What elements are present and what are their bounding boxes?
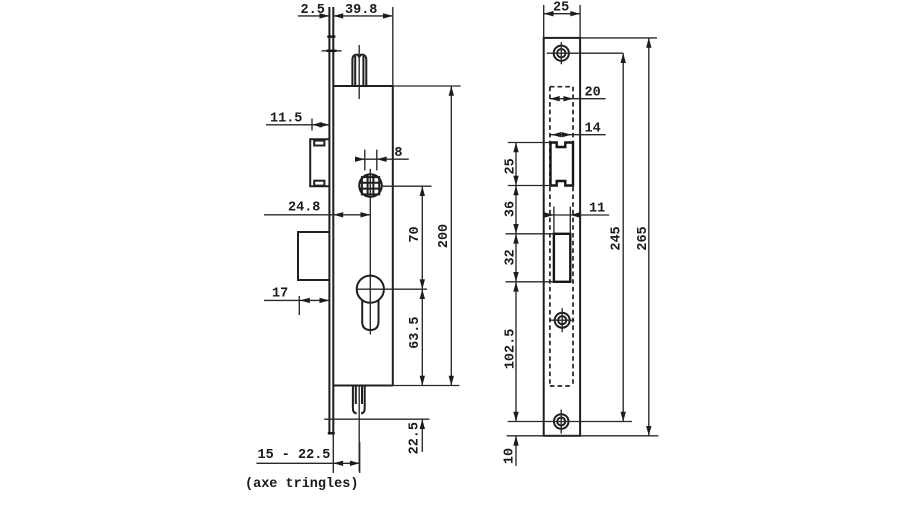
- svg-text:10: 10: [503, 448, 518, 464]
- lock case body outline: [333, 86, 460, 386]
- svg-text:2.5: 2.5: [301, 3, 325, 18]
- dimension 20 (case width): [550, 86, 606, 102]
- faceplate top end tick: [327, 35, 335, 37]
- euro cylinder profile: [357, 276, 384, 330]
- dimension 8 (square spindle): [355, 146, 409, 170]
- dimension 200 (case height): [386, 86, 460, 386]
- dimension 14 (latch slot width): [550, 122, 606, 138]
- svg-text:15 - 22.5: 15 - 22.5: [258, 448, 331, 463]
- dimension 22.5 (rod protrusion): [408, 419, 426, 454]
- dimension 24.8 (follower backset): [264, 201, 370, 218]
- svg-text:36: 36: [504, 201, 519, 217]
- dimension 32 (deadbolt cutout height): [504, 234, 554, 282]
- svg-text:11: 11: [589, 202, 605, 217]
- faceplate bottom end tick: [328, 432, 335, 434]
- bottom rod tip reference line: [324, 418, 429, 420]
- svg-text:25: 25: [553, 1, 569, 16]
- faceplate outline: [544, 38, 580, 436]
- follower with square spindle hole: [359, 174, 382, 197]
- dimension 15 - 22.5 (axe tringles): [256, 434, 360, 473]
- dimension 36 (latch to deadbolt): [504, 186, 554, 234]
- dimension 63.5 (cylinder to case bottom): [408, 289, 425, 385]
- svg-text:17: 17: [272, 287, 288, 302]
- svg-text:63.5: 63.5: [408, 316, 423, 348]
- dimension 2.5 (plate thickness): [298, 3, 329, 19]
- svg-text:200: 200: [437, 224, 452, 248]
- middle screw hole: [550, 308, 574, 332]
- bottom rod (tringle): [353, 386, 365, 414]
- dimension 25 (plate width): [544, 1, 580, 38]
- bottom rod centre line: [358, 386, 360, 471]
- top screw hole: [547, 42, 624, 64]
- dimension 265 (plate length): [507, 38, 659, 436]
- dimension 11.5 (keeper offset): [266, 112, 329, 131]
- deadbolt cutout: [554, 234, 570, 282]
- dimension 25 (latch cutout height): [504, 143, 551, 186]
- dimension 17 (deadbolt offset): [264, 287, 329, 316]
- svg-text:265: 265: [636, 226, 651, 250]
- dimension 11 (deadbolt slot width): [544, 202, 609, 234]
- dimension 102.5 (deadbolt to bottom screw): [504, 282, 519, 422]
- dimension 245 (screw centres): [610, 53, 626, 421]
- top screw tick across plate: [322, 50, 342, 52]
- svg-text:39.8: 39.8: [345, 3, 377, 18]
- top rod (tringle): [352, 55, 366, 86]
- svg-text:22.5: 22.5: [408, 422, 423, 454]
- svg-text:8: 8: [394, 146, 402, 161]
- bottom screw hole: [508, 410, 632, 434]
- dimension 39.8 (case depth): [333, 3, 393, 86]
- cylinder horizontal centre line: [356, 288, 427, 290]
- reference line follower axis: [382, 185, 432, 187]
- dimension 10 (bottom screw to plate end): [503, 436, 519, 466]
- latch cutout: [551, 143, 574, 186]
- svg-text:245: 245: [610, 226, 625, 250]
- faceplate edge-on (two vertical lines): [329, 7, 333, 434]
- svg-text:32: 32: [504, 249, 519, 265]
- svg-text:14: 14: [585, 122, 601, 137]
- svg-text:(axe tringles): (axe tringles): [245, 477, 358, 492]
- top rod centre line: [358, 45, 360, 99]
- hidden lock case (dashed): [550, 87, 573, 386]
- svg-text:20: 20: [585, 86, 601, 101]
- svg-text:24.8: 24.8: [288, 201, 320, 216]
- svg-text:11.5: 11.5: [270, 112, 302, 127]
- follower / cylinder centre line: [369, 169, 371, 215]
- svg-text:102.5: 102.5: [504, 329, 519, 370]
- deadbolt housing box: [298, 232, 329, 280]
- dimension 70 (follower to cylinder): [408, 186, 425, 289]
- latch keeper bracket on plate: [310, 139, 329, 186]
- svg-text:25: 25: [504, 158, 519, 174]
- svg-text:70: 70: [408, 226, 423, 242]
